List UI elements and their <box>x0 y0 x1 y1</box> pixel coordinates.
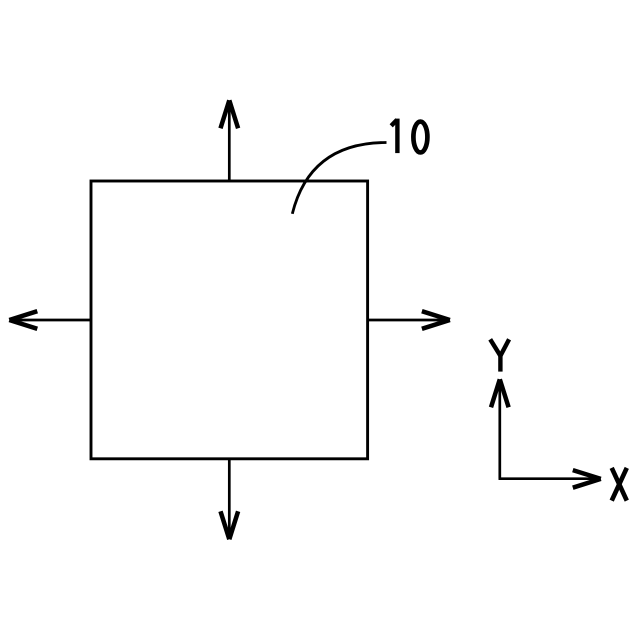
label 10 : digit 1 <box>391 119 397 154</box>
top arrowhead <box>218 100 240 129</box>
wire left arrow shaft <box>11 319 91 322</box>
bottom arrowhead <box>218 511 240 540</box>
axis label X <box>612 468 627 501</box>
wire bottom arrow shaft <box>228 459 231 538</box>
leader line to label 10 <box>292 143 386 214</box>
right arrowhead <box>421 309 450 331</box>
axis label Y <box>490 339 509 371</box>
axis Y arrowhead <box>489 379 511 408</box>
wire right arrow shaft <box>368 319 448 322</box>
axis Y line <box>498 381 501 479</box>
axis X arrowhead <box>572 468 601 490</box>
axis X line <box>499 477 600 480</box>
left arrowhead <box>9 309 38 331</box>
square body 10 <box>91 181 368 459</box>
wire top arrow shaft <box>228 102 231 181</box>
label 10 : digit 0 <box>413 122 427 153</box>
